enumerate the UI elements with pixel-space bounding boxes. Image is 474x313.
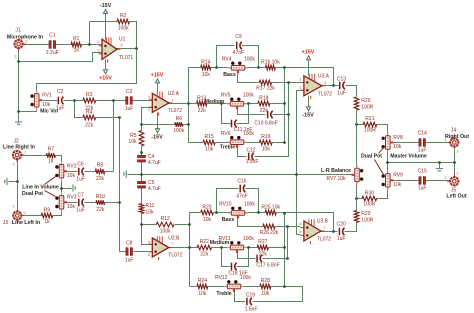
svg-text:J3: J3 xyxy=(3,220,9,226)
wire rail A lower xyxy=(284,214,286,287)
svg-text:C3: C3 xyxy=(126,89,133,95)
svg-text:Line Right In: Line Right In xyxy=(3,145,35,151)
capacitor C5 xyxy=(138,180,161,192)
wire U2A to -15V xyxy=(157,113,159,130)
wire C1 to R1 xyxy=(56,44,72,46)
svg-text:Right Out: Right Out xyxy=(445,134,469,140)
svg-text:RV9: RV9 xyxy=(393,173,403,179)
wire RV11 wiper to C17 xyxy=(238,253,256,259)
svg-text:RV4: RV4 xyxy=(222,57,232,63)
svg-text:R26 22k: R26 22k xyxy=(260,230,279,236)
wire J2 to R7 xyxy=(22,155,47,157)
junction mid left lower xyxy=(220,246,223,249)
svg-text:1uF: 1uF xyxy=(337,91,346,97)
junction C2 R3 R4 xyxy=(73,99,76,102)
wire R14 to RV4 xyxy=(211,67,233,69)
svg-text:R23: R23 xyxy=(202,205,211,211)
svg-text:3: 3 xyxy=(300,86,302,90)
resistor R18 xyxy=(258,95,270,114)
wire R12 left xyxy=(142,224,157,226)
power -15V xyxy=(100,3,112,13)
svg-text:R11: R11 xyxy=(146,203,155,209)
resistor R6 xyxy=(173,116,184,134)
svg-text:2.2uF: 2.2uF xyxy=(46,50,59,56)
svg-text:1: 1 xyxy=(325,81,327,85)
svg-text:RV7 10k: RV7 10k xyxy=(326,176,346,182)
wire C2 to R3 xyxy=(64,100,83,102)
svg-text:R7: R7 xyxy=(48,147,55,153)
resistor R8 xyxy=(95,163,104,182)
svg-text:R5: R5 xyxy=(130,133,137,139)
svg-text:1: 1 xyxy=(445,138,447,142)
junction mid left xyxy=(220,102,223,105)
svg-text:RV5: RV5 xyxy=(221,93,231,99)
wire U3A to -15V xyxy=(308,96,310,108)
wire R6 right xyxy=(183,124,189,126)
potentiometer RV1 Mic Vol xyxy=(30,90,52,110)
wire J4 sleeve to J5 xyxy=(454,148,456,178)
potentiometer RV11 Medium xyxy=(218,236,254,253)
svg-text:1uF: 1uF xyxy=(56,105,65,111)
resistor R23 xyxy=(201,205,214,223)
wire RV2 to RV3 xyxy=(61,179,63,196)
wire R8 to rail xyxy=(105,171,114,173)
wire C11 loop left xyxy=(222,104,231,124)
svg-text:TL071: TL071 xyxy=(119,55,133,61)
ground xyxy=(124,170,126,177)
svg-text:R21: R21 xyxy=(365,116,374,122)
svg-text:J1: J1 xyxy=(15,28,21,34)
wire U1 out to RV1 top xyxy=(37,49,137,95)
resistor R20 xyxy=(354,97,373,111)
svg-text:4.7uF: 4.7uF xyxy=(148,186,161,192)
svg-text:R12: R12 xyxy=(161,216,170,222)
svg-text:1.5nF: 1.5nF xyxy=(245,307,258,313)
capacitor C18 xyxy=(232,263,237,271)
wire RV6 wiper to C12 xyxy=(238,148,247,157)
resistor R1 xyxy=(71,36,82,54)
wire to R30 xyxy=(357,198,363,200)
wire output node rail lower xyxy=(189,213,191,287)
resistor R28 xyxy=(260,278,271,297)
wire +15V to U2A xyxy=(157,83,159,93)
wire RV1 bottom to ground rail xyxy=(19,108,37,112)
wire pots mid to ground xyxy=(62,188,72,190)
power +15V U3A xyxy=(302,50,315,60)
junction mix node right xyxy=(112,99,115,102)
junction R10 rail xyxy=(118,201,121,204)
svg-text:2: 2 xyxy=(457,150,459,154)
wire input rail B to C12 xyxy=(255,83,289,157)
jack J4 xyxy=(447,136,459,148)
wire C9 loop right xyxy=(242,46,259,68)
svg-text:100k: 100k xyxy=(243,236,254,242)
svg-text:C6: C6 xyxy=(77,161,84,167)
svg-text:R22: R22 xyxy=(200,239,209,245)
svg-text:100k: 100k xyxy=(244,202,255,208)
resistor R21 xyxy=(363,116,377,133)
svg-text:R18: R18 xyxy=(259,95,268,101)
resistor R11 xyxy=(139,203,154,216)
arrow to RV2 xyxy=(45,177,56,185)
svg-text:R1: R1 xyxy=(73,36,80,42)
resistor R4 xyxy=(83,109,96,128)
junction C10 rail B xyxy=(287,113,290,116)
wire ground stub right xyxy=(439,163,441,169)
svg-text:-15V: -15V xyxy=(100,3,112,9)
wire R23 to RV10 xyxy=(214,212,233,214)
wire C17 to rail B lower xyxy=(263,258,288,260)
wire mid reference line xyxy=(128,174,353,176)
wire U3A pin3 to balance xyxy=(297,91,304,175)
wire node to R4 xyxy=(75,101,83,118)
svg-text:2: 2 xyxy=(15,55,17,59)
svg-text:1uF: 1uF xyxy=(76,208,85,214)
svg-text:1uF: 1uF xyxy=(125,258,134,264)
wire RV12 wiper to C19 xyxy=(235,292,246,302)
junction bias mid ground xyxy=(140,173,143,176)
svg-text:1: 1 xyxy=(24,151,26,155)
junction bass right lower xyxy=(257,211,260,214)
junction R4 rail xyxy=(118,116,121,119)
wire R12 right xyxy=(175,224,190,226)
svg-text:10k: 10k xyxy=(198,291,207,297)
svg-text:2: 2 xyxy=(148,108,150,112)
label Line In Volume Dual Pot xyxy=(22,184,59,190)
svg-text:100k: 100k xyxy=(243,131,254,137)
op-amp U3:B TL072 xyxy=(300,219,332,245)
wire rail to C8 xyxy=(120,251,126,253)
resistor R19 xyxy=(259,134,272,153)
wire feedback left xyxy=(90,21,118,23)
wire U2A output xyxy=(166,103,189,105)
op-amp U2:B TL072 xyxy=(148,236,183,261)
resistor R7 xyxy=(46,147,55,165)
wire U3B pin5 to balance xyxy=(297,175,301,235)
op-amp U3:A TL072 xyxy=(300,73,333,99)
arrow to RV9 xyxy=(375,160,384,175)
svg-text:4.7uF: 4.7uF xyxy=(148,160,161,166)
svg-text:R19: R19 xyxy=(261,134,270,140)
svg-text:10k: 10k xyxy=(393,144,402,150)
wire output ground line xyxy=(388,162,455,164)
svg-text:C7: C7 xyxy=(77,193,84,199)
potentiometer RV10 Bass xyxy=(219,202,255,219)
capacitor C7 xyxy=(76,193,85,214)
wire R25 to U3B out xyxy=(277,213,334,232)
wire RV2 wiper to C6 xyxy=(67,171,78,173)
wire to R23 xyxy=(190,212,201,214)
svg-text:+15V: +15V xyxy=(151,73,164,79)
power +15V U1 xyxy=(99,70,112,82)
wire C18 loop left xyxy=(222,248,231,267)
svg-text:Left Out: Left Out xyxy=(446,193,467,199)
svg-text:R28: R28 xyxy=(261,278,270,284)
svg-text:22k: 22k xyxy=(198,108,207,114)
junction feedback A lower xyxy=(283,212,286,215)
svg-text:+15V: +15V xyxy=(99,76,112,82)
potentiometer RV9 volume left xyxy=(382,170,404,190)
wire C7 to R10 xyxy=(85,202,97,204)
wire C10 to rail B xyxy=(273,114,289,116)
svg-text:U3:A: U3:A xyxy=(318,73,330,79)
junction mid right lower xyxy=(247,246,250,249)
wire C6 to R8 xyxy=(85,171,96,173)
jack J5 xyxy=(447,174,459,186)
svg-text:R4: R4 xyxy=(86,109,93,115)
wire output node rail xyxy=(188,68,190,143)
svg-text:3: 3 xyxy=(148,96,150,100)
svg-text:100k: 100k xyxy=(243,93,254,99)
junction U3A out xyxy=(332,84,335,87)
svg-text:TL072: TL072 xyxy=(317,237,331,243)
svg-text:Master Volume: Master Volume xyxy=(390,154,427,160)
wire rail A xyxy=(284,68,286,143)
svg-text:C1: C1 xyxy=(49,33,56,39)
svg-text:R16 10k: R16 10k xyxy=(261,59,280,65)
svg-text:100k: 100k xyxy=(244,57,255,63)
svg-text:100k: 100k xyxy=(173,128,184,134)
svg-text:2: 2 xyxy=(13,205,15,209)
junction R29 R30 xyxy=(355,197,358,200)
capacitor C4 xyxy=(138,154,161,166)
svg-text:6: 6 xyxy=(148,253,150,257)
svg-text:C8: C8 xyxy=(126,241,133,247)
wire U3B out to C20 xyxy=(321,231,338,233)
resistor R15 xyxy=(203,134,215,153)
potentiometer RV3 xyxy=(55,192,77,212)
svg-text:-15V: -15V xyxy=(151,135,163,141)
junction C17 rail xyxy=(286,257,289,260)
wire RV3 wiper to C7 xyxy=(67,202,78,204)
wire R30 to RV9 bottom xyxy=(377,188,388,199)
wire C9 loop left xyxy=(217,46,235,68)
wire C13 to R20 xyxy=(346,86,357,97)
wire inverting node up to feedback xyxy=(89,22,91,45)
svg-text:2: 2 xyxy=(13,163,15,167)
capacitor C14 xyxy=(418,130,427,153)
ground xyxy=(15,122,22,124)
svg-text:R2: R2 xyxy=(120,13,127,19)
svg-text:2: 2 xyxy=(98,40,100,44)
wire U3A out to C13 xyxy=(323,85,339,87)
wire sleeve to ground xyxy=(9,181,18,183)
resistor R9 xyxy=(41,207,53,225)
wire C16 loop left xyxy=(217,189,239,213)
resistor R26 xyxy=(260,224,279,236)
svg-text:U1: U1 xyxy=(119,37,126,43)
capacitor C9 xyxy=(233,34,244,56)
wire to R14 xyxy=(189,67,201,69)
wire R1 to U1 pin2 xyxy=(82,44,103,46)
svg-text:3: 3 xyxy=(98,49,100,53)
wire RV10 to R25 xyxy=(244,212,266,214)
resistor R24 xyxy=(197,278,208,297)
wire RV11 to R27 xyxy=(244,247,258,249)
svg-text:C12: C12 xyxy=(246,147,255,153)
svg-text:RV3: RV3 xyxy=(67,195,77,201)
svg-text:Treble: Treble xyxy=(220,145,235,151)
svg-text:C2: C2 xyxy=(57,89,64,95)
svg-text:1uF: 1uF xyxy=(418,186,427,192)
wire to R15 xyxy=(189,142,203,144)
svg-text:RV11: RV11 xyxy=(218,236,230,242)
svg-text:C14: C14 xyxy=(418,130,427,136)
wire R3 to C3 xyxy=(96,100,126,102)
wire J1 sleeve to ground xyxy=(18,49,20,122)
potentiometer RV6 Treble xyxy=(221,131,254,148)
capacitor C16 xyxy=(236,178,247,199)
svg-text:L-R Balance: L-R Balance xyxy=(321,168,351,174)
svg-text:10k: 10k xyxy=(146,210,155,216)
svg-text:R27: R27 xyxy=(258,239,267,245)
wire R18 to rail A xyxy=(270,103,285,105)
capacitor C12 xyxy=(249,153,254,161)
wire RV12 to R28 xyxy=(240,286,260,288)
wire R24 to RV12 xyxy=(208,286,229,288)
capacitor C17 xyxy=(257,255,262,263)
svg-text:100R: 100R xyxy=(361,105,373,111)
wire ground stub xyxy=(128,174,142,176)
svg-text:C20: C20 xyxy=(337,222,346,228)
svg-text:R29: R29 xyxy=(361,211,370,217)
junction mid right xyxy=(247,102,250,105)
jack J3 xyxy=(12,211,24,223)
capacitor C2 xyxy=(56,89,65,111)
junction feedback A xyxy=(283,66,286,69)
svg-text:RV1: RV1 xyxy=(42,93,52,99)
wire to R13 xyxy=(189,103,197,105)
svg-text:10k: 10k xyxy=(67,173,76,179)
svg-text:10k: 10k xyxy=(261,291,270,297)
svg-text:5: 5 xyxy=(300,230,302,234)
resistor R22 xyxy=(197,239,211,257)
svg-text:5: 5 xyxy=(148,241,150,245)
wire R11 to R12 row xyxy=(141,214,143,225)
resistor R2 xyxy=(117,13,129,32)
junction R28 rail A lower xyxy=(283,285,286,288)
wire ground to U1 pin3 xyxy=(19,53,103,62)
svg-text:1uF: 1uF xyxy=(76,177,85,183)
wire R19 to rail A xyxy=(273,142,285,144)
svg-text:C13: C13 xyxy=(337,76,346,82)
wire -15V to U1 V+ xyxy=(105,14,107,40)
power +15V U2A xyxy=(151,73,164,83)
wire RV4 wiper to R17 xyxy=(238,74,260,83)
svg-text:Bass: Bass xyxy=(223,72,236,78)
resistor R10 xyxy=(96,194,105,213)
svg-text:C15: C15 xyxy=(418,168,427,174)
svg-text:47nF: 47nF xyxy=(236,194,247,200)
potentiometer RV5 Medium xyxy=(221,93,254,110)
capacitor C3 xyxy=(125,89,134,112)
wire R17 to U3A pin2 xyxy=(272,82,304,84)
pin number labels xyxy=(26,40,28,44)
svg-text:R20: R20 xyxy=(361,98,370,104)
svg-text:J4: J4 xyxy=(451,127,457,133)
wire RV5 wiper to C10 xyxy=(238,110,266,115)
svg-text:TL072: TL072 xyxy=(168,253,182,259)
svg-text:R17 22k: R17 22k xyxy=(256,86,275,92)
junction ground sym xyxy=(438,161,441,164)
svg-text:100R: 100R xyxy=(364,127,376,133)
junction U3B out xyxy=(332,230,335,233)
wire C5 to R11 xyxy=(141,187,143,204)
svg-text:Dual Pot: Dual Pot xyxy=(22,191,43,197)
junction U1 inverting node xyxy=(88,43,91,46)
svg-text:Line In Volume: Line In Volume xyxy=(22,184,59,190)
svg-text:22k: 22k xyxy=(96,207,105,213)
wire R27 to rail A lower xyxy=(269,247,285,249)
wire R21 to RV8 top xyxy=(377,125,388,136)
label Master Volume xyxy=(390,154,427,160)
junction jack ground xyxy=(16,180,19,183)
junction R11 R12 xyxy=(140,223,143,226)
svg-text:-15V: -15V xyxy=(302,113,314,119)
svg-text:1k: 1k xyxy=(48,158,54,164)
svg-text:R6: R6 xyxy=(176,116,183,122)
junction balance ref xyxy=(295,173,298,176)
junction R5 C4 xyxy=(140,151,143,154)
junction R18 rail A xyxy=(283,102,286,105)
svg-text:RV6: RV6 xyxy=(221,131,231,137)
capacitor C8 xyxy=(125,241,134,264)
wire C18 loop right xyxy=(237,248,249,267)
wire R26 to U3B pin6 xyxy=(276,226,301,228)
capacitor C6 xyxy=(76,161,85,182)
svg-text:RV2: RV2 xyxy=(67,164,77,170)
svg-text:10k: 10k xyxy=(128,139,137,145)
wire U1 output xyxy=(117,48,137,50)
wire R2 to U1 output xyxy=(130,22,137,49)
svg-text:R25 10k: R25 10k xyxy=(261,204,280,210)
wire U1 V- to +15V xyxy=(105,60,107,71)
wire RV7 bottom to R29 xyxy=(356,183,358,211)
potentiometer RV2 xyxy=(55,161,77,181)
ground xyxy=(5,178,7,185)
wire C4 to C5 xyxy=(141,161,143,184)
svg-text:RV10: RV10 xyxy=(219,202,232,208)
svg-text:U2:A: U2:A xyxy=(168,91,180,97)
svg-text:C10 6.8nF: C10 6.8nF xyxy=(254,120,277,126)
svg-text:C19: C19 xyxy=(246,292,255,298)
svg-text:22k: 22k xyxy=(85,123,94,129)
label Dual Pot xyxy=(361,154,382,160)
svg-text:1: 1 xyxy=(24,211,26,215)
wire right-mix rail down xyxy=(113,101,115,172)
junction RV8 RV9 ground xyxy=(386,161,389,164)
wire R5 to C4 xyxy=(141,147,143,158)
resistor R27 xyxy=(257,239,268,257)
junction U1 output xyxy=(135,47,138,50)
wire to R24 xyxy=(190,286,197,288)
svg-text:R15: R15 xyxy=(205,134,214,140)
svg-text:2: 2 xyxy=(457,172,459,176)
potentiometer RV7 L-R Balance xyxy=(352,165,364,185)
wire RV1 wiper to C2 xyxy=(43,100,58,102)
resistor R16 xyxy=(261,59,280,70)
resistor R17 xyxy=(256,80,275,91)
resistor R12 xyxy=(156,216,174,235)
svg-text:+15V: +15V xyxy=(302,50,315,56)
potentiometer RV8 volume right xyxy=(382,132,404,152)
svg-text:7: 7 xyxy=(172,242,174,246)
svg-text:RV8: RV8 xyxy=(393,135,403,141)
wire RV10 wiper to R26 xyxy=(238,219,263,227)
svg-text:R14: R14 xyxy=(201,59,210,65)
jack J2 xyxy=(12,150,24,162)
svg-text:R24: R24 xyxy=(198,278,207,284)
